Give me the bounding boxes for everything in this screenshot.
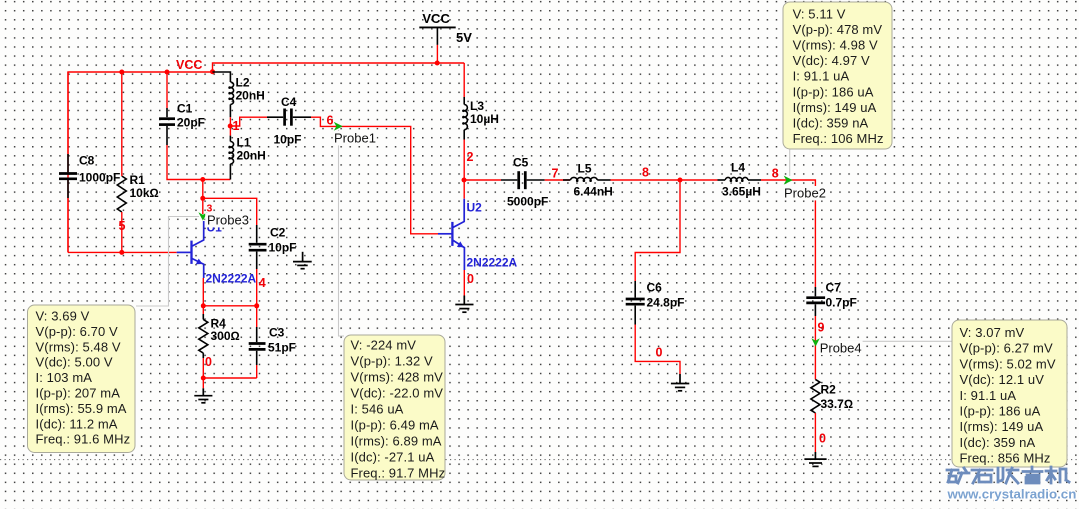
svg-text:V: 3.69 V: V: 3.69 V	[36, 309, 90, 324]
probe Probe1 text	[333, 131, 377, 146]
svg-text:Freq.: 91.7 MHz: Freq.: 91.7 MHz	[351, 466, 446, 481]
svg-text:I(dc): 359 nA: I(dc): 359 nA	[793, 116, 869, 131]
wire U2 emitter down	[463, 270, 465, 296]
wire collector node to Probe3	[202, 198, 204, 214]
svg-text:24.8pF: 24.8pF	[647, 296, 685, 310]
capacitor C8	[59, 154, 77, 198]
node C6 branch junction	[678, 178, 683, 183]
wire node4 bottom rail	[203, 377, 256, 379]
svg-text:0: 0	[819, 432, 826, 446]
svg-text:V(dc): 5.00 V: V(dc): 5.00 V	[36, 355, 113, 370]
svg-text:V(rms): 4.98 V: V(rms): 4.98 V	[793, 38, 878, 53]
node VCC junction L2 corner	[210, 69, 215, 74]
wire VCC rail down to L3	[463, 63, 465, 97]
node VCC junction C1 top	[165, 70, 170, 75]
svg-text:L4: L4	[731, 161, 745, 175]
svg-text:8: 8	[772, 167, 779, 181]
probe readout box Probe1 measurements	[344, 335, 445, 481]
svg-text:10µH: 10µH	[470, 112, 499, 126]
svg-text:I(rms): 55.9 mA: I(rms): 55.9 mA	[36, 401, 127, 416]
svg-text:6.44nH: 6.44nH	[574, 185, 613, 199]
wire C8 top lead red	[67, 72, 69, 154]
wire C6 bottom to ground	[635, 325, 680, 375]
wire R4 top lead red	[202, 306, 204, 314]
probe Probe3 arrow	[198, 212, 207, 220]
svg-text:V(dc): 4.97 V: V(dc): 4.97 V	[793, 53, 870, 68]
svg-text:2N2222A: 2N2222A	[206, 272, 257, 286]
svg-text:1000pF: 1000pF	[79, 171, 120, 185]
svg-text:V: 5.11 V: V: 5.11 V	[793, 6, 846, 21]
svg-text:20nH: 20nH	[236, 89, 265, 103]
svg-text:I: 91.1 uA: I: 91.1 uA	[960, 388, 1017, 403]
power VCC supply symbol	[419, 27, 455, 45]
svg-text:7: 7	[552, 167, 559, 181]
svg-text:L2: L2	[236, 76, 250, 90]
svg-text:10pF: 10pF	[274, 133, 302, 147]
svg-text:I(dc): 359 nA: I(dc): 359 nA	[960, 435, 1036, 450]
probe Probe1 arrow	[334, 122, 343, 131]
wire R1 bottom lead	[121, 212, 123, 252]
svg-text:10kΩ: 10kΩ	[130, 186, 159, 200]
svg-text:5000pF: 5000pF	[507, 195, 548, 209]
wire VCC supply to rail	[436, 45, 438, 63]
svg-text:V(rms): 5.48 V: V(rms): 5.48 V	[36, 339, 121, 354]
svg-text:0: 0	[205, 355, 212, 369]
svg-text:9: 9	[818, 321, 825, 335]
svg-text:300Ω: 300Ω	[211, 329, 240, 343]
page border dotted line	[0, 459, 1079, 461]
svg-text:VCC: VCC	[422, 11, 450, 26]
wire Probe3 gray connector	[136, 217, 199, 307]
node 1 junction	[228, 124, 233, 129]
wire C3 top lead red	[256, 306, 258, 327]
svg-text:I(rms): 149 uA: I(rms): 149 uA	[960, 419, 1044, 434]
probe readout box Probe4 measurements	[952, 320, 1067, 467]
svg-text:V(rms): 5.02 mV: V(rms): 5.02 mV	[960, 356, 1056, 371]
watermark chinese characters	[947, 467, 1069, 483]
svg-text:V(p-p): 6.70 V: V(p-p): 6.70 V	[36, 324, 119, 339]
wire base net Q1	[68, 251, 177, 253]
probe Probe4 arrow	[811, 338, 819, 346]
svg-text:C2: C2	[270, 226, 286, 240]
svg-text:V(p-p): 478 mV: V(p-p): 478 mV	[793, 22, 883, 37]
wire C6 branch	[635, 180, 680, 281]
svg-text:V(dc): 12.1 uV: V(dc): 12.1 uV	[960, 372, 1045, 387]
inductor L4	[718, 177, 762, 182]
capacitor C5	[501, 171, 545, 189]
svg-text:I(dc): 11.2 mA: I(dc): 11.2 mA	[36, 416, 118, 431]
inductor L2	[213, 72, 234, 117]
svg-text:L3: L3	[470, 99, 484, 113]
node tank bottom junction	[200, 177, 205, 182]
svg-text:I(p-p): 6.49 mA: I(p-p): 6.49 mA	[351, 418, 439, 433]
transistor U2 2N2222A	[438, 199, 464, 270]
svg-text:R1: R1	[130, 173, 146, 187]
probe readout box Probe2 measurements	[783, 2, 892, 149]
wire Q1 emitter to node4	[202, 278, 204, 306]
svg-text:V(dc): -22.0 mV: V(dc): -22.0 mV	[351, 386, 444, 401]
wire Probe1 gray connector	[339, 130, 345, 336]
wire L5 to L4	[611, 179, 718, 181]
svg-text:V: 3.07 mV: V: 3.07 mV	[960, 325, 1025, 340]
probe Probe4 text	[819, 340, 863, 355]
svg-text:I(rms): 149 uA: I(rms): 149 uA	[793, 100, 877, 115]
svg-text:C3: C3	[269, 326, 285, 340]
inductor L3	[462, 97, 467, 140]
svg-text:Freq.: 106 MHz: Freq.: 106 MHz	[793, 131, 884, 146]
wire VCC rail left segment	[68, 63, 464, 252]
capacitor C2	[249, 225, 267, 269]
svg-text:C6: C6	[647, 281, 663, 295]
transistor Q1 2N2222A	[177, 221, 204, 278]
svg-text:C7: C7	[826, 281, 842, 295]
svg-text:R2: R2	[821, 383, 837, 397]
ground under R2	[804, 452, 826, 466]
node 2 junction	[462, 178, 467, 183]
svg-text:U2: U2	[467, 201, 483, 215]
node collector junction	[200, 196, 205, 201]
resistor R1	[117, 176, 126, 212]
wire C4 to Probe1 to U2 base	[311, 117, 438, 234]
resistor R4	[199, 314, 208, 358]
ground under R4	[194, 388, 212, 403]
wire R1 top lead	[121, 72, 123, 176]
svg-text:V(p-p): 1.32 V: V(p-p): 1.32 V	[351, 354, 434, 369]
capacitor C6	[626, 281, 645, 325]
svg-text:0: 0	[656, 346, 663, 360]
svg-text:Freq.: 91.6 MHz: Freq.: 91.6 MHz	[36, 432, 131, 447]
svg-text:V: -224 mV: V: -224 mV	[351, 338, 417, 353]
svg-text:V(p-p): 6.27 mV: V(p-p): 6.27 mV	[960, 341, 1053, 356]
node ground junction under R4	[201, 376, 206, 381]
ground under C6	[671, 374, 689, 391]
wire node4 rail	[203, 305, 256, 307]
svg-text:I(rms): 6.89 mA: I(rms): 6.89 mA	[351, 434, 442, 449]
inductor L5	[563, 177, 611, 182]
svg-text:C4: C4	[281, 95, 297, 109]
svg-text:Freq.: 856 MHz: Freq.: 856 MHz	[960, 451, 1051, 466]
probe readout box Probe3 measurements	[28, 305, 136, 453]
svg-text:33.7Ω: 33.7Ω	[821, 397, 854, 411]
svg-text:I: 91.1 uA: I: 91.1 uA	[793, 69, 850, 84]
svg-text:51pF: 51pF	[268, 341, 296, 355]
svg-text:2: 2	[467, 150, 474, 164]
wire tank bottom to collector node	[202, 180, 204, 199]
svg-text:www.crystalradio.cn: www.crystalradio.cn	[947, 487, 1077, 502]
node 4 junction right	[254, 303, 259, 308]
resistor R2	[811, 379, 820, 413]
svg-text:C1: C1	[177, 102, 193, 116]
wire C8 bottom lead red	[67, 198, 69, 252]
wire C1 bottom to tank bottom	[167, 145, 230, 180]
svg-text:I(dc): -27.1 uA: I(dc): -27.1 uA	[351, 450, 435, 465]
svg-text:10pF: 10pF	[269, 241, 297, 255]
capacitor C4	[267, 109, 311, 126]
wire L3 bottom to node2	[463, 140, 465, 199]
wire L4 to Probe2 corner	[761, 180, 815, 287]
svg-text:Probe4: Probe4	[820, 340, 862, 355]
wire node2 to C5	[464, 179, 501, 181]
node VCC junction R1 top	[119, 70, 124, 75]
svg-text:L5: L5	[578, 162, 592, 176]
node base net R1 junction	[119, 250, 124, 255]
svg-text:5: 5	[119, 219, 126, 233]
wire C2 bottom to node4	[256, 269, 258, 306]
svg-text:0.7pF: 0.7pF	[826, 296, 857, 310]
svg-text:Probe3: Probe3	[207, 213, 249, 228]
wire R2 bottom lead	[814, 413, 816, 452]
svg-text:Probe1: Probe1	[334, 131, 376, 146]
wire C3 bottom lead red	[256, 365, 258, 378]
inductor L1	[228, 136, 233, 180]
svg-text:VCC: VCC	[176, 58, 202, 72]
node VCC supply junction	[435, 61, 440, 66]
svg-text:20nH: 20nH	[237, 149, 266, 163]
capacitor C1	[159, 108, 175, 145]
wire node1 to C4	[230, 117, 267, 126]
svg-text:L1: L1	[237, 136, 251, 150]
svg-text:20pF: 20pF	[177, 116, 205, 130]
wire ground lead under R4	[202, 378, 204, 388]
svg-text:I(p-p): 186 uA: I(p-p): 186 uA	[793, 84, 874, 99]
svg-text:V(rms): 428 mV: V(rms): 428 mV	[351, 370, 444, 385]
svg-text:I: 546 uA: I: 546 uA	[351, 402, 404, 417]
wire R4 bottom lead red	[202, 358, 204, 378]
svg-text:C8: C8	[79, 154, 95, 168]
node 4 junction left	[201, 303, 206, 308]
svg-text:I(p-p): 186 uA: I(p-p): 186 uA	[960, 404, 1041, 419]
svg-text:8: 8	[642, 166, 649, 180]
wire node 1 vertical	[229, 117, 231, 135]
svg-text:C5: C5	[513, 156, 529, 170]
svg-text:5V: 5V	[456, 30, 472, 45]
wire C7 to R2	[814, 316, 816, 379]
ground near C2	[293, 252, 312, 269]
wire collector node to C2 top	[203, 198, 257, 225]
capacitor C3	[249, 327, 266, 365]
probe Probe3 text	[205, 213, 250, 228]
capacitor C7	[806, 287, 825, 316]
wire C1 top lead red	[166, 72, 168, 108]
probe Probe2 text	[783, 186, 827, 201]
svg-text:I: 103 mA: I: 103 mA	[36, 370, 93, 385]
wire C5 to L5	[545, 179, 570, 181]
svg-text:Probe2: Probe2	[784, 186, 826, 201]
svg-text:I(p-p): 207 mA: I(p-p): 207 mA	[36, 386, 121, 401]
svg-text:4: 4	[259, 276, 266, 290]
svg-text:3.65µH: 3.65µH	[722, 185, 761, 199]
wire Probe4 gray connector	[820, 340, 952, 342]
ground under U2	[455, 296, 473, 313]
svg-text:2N2222A: 2N2222A	[467, 256, 518, 270]
wire Probe2 gray connector	[789, 150, 791, 177]
svg-text:6: 6	[327, 114, 334, 128]
probe Probe2 arrow	[784, 176, 793, 185]
svg-text:0: 0	[467, 272, 474, 286]
